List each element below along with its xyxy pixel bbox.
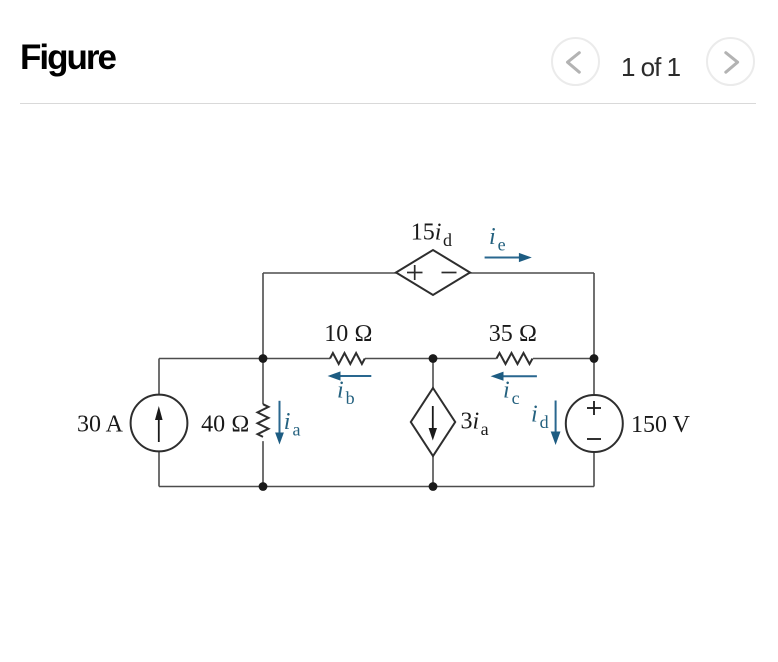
svg-text:ie: ie — [489, 224, 506, 255]
svg-text:ia: ia — [284, 409, 301, 440]
svg-text:10 Ω: 10 Ω — [324, 321, 372, 347]
svg-text:150 V: 150 V — [631, 412, 691, 438]
svg-text:30 A: 30 A — [77, 412, 124, 438]
svg-text:ib: ib — [337, 378, 355, 409]
svg-text:3ia: 3ia — [461, 409, 489, 440]
svg-text:35 Ω: 35 Ω — [489, 321, 537, 347]
svg-text:ic: ic — [503, 378, 520, 409]
svg-text:id: id — [531, 402, 549, 433]
svg-text:40 Ω: 40 Ω — [201, 412, 249, 438]
svg-text:15id: 15id — [411, 220, 452, 251]
